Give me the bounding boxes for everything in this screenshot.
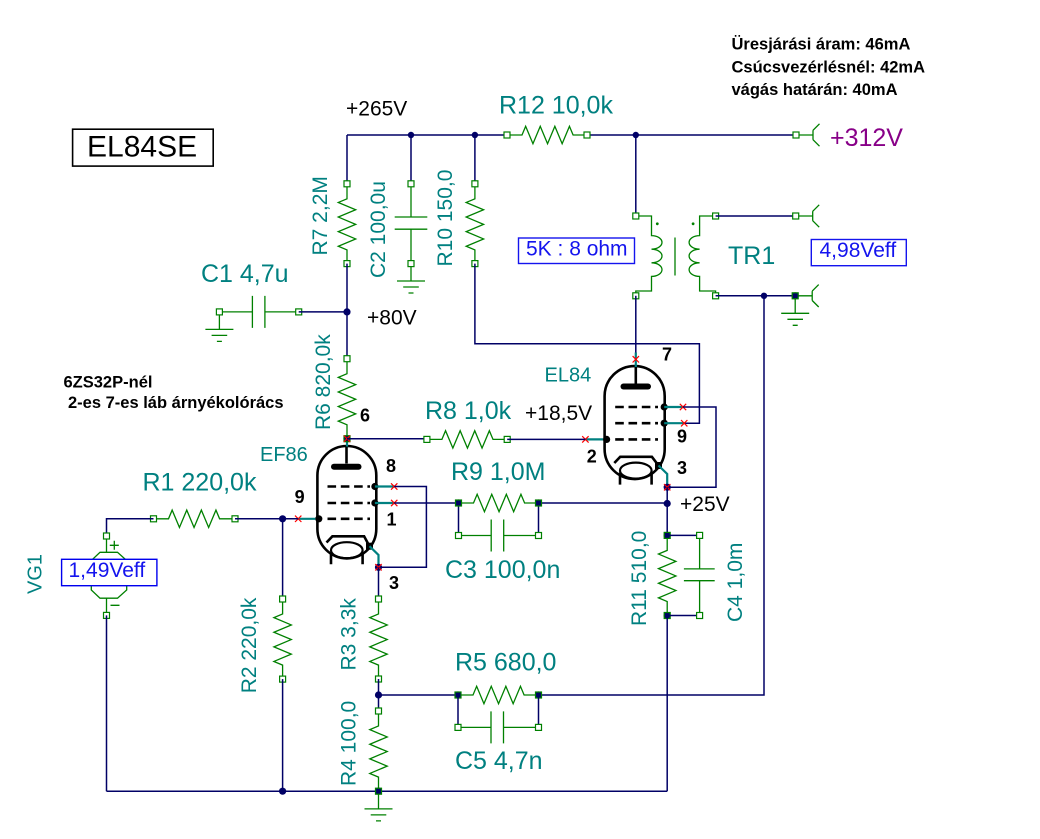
wire R8 to EL84 g1 [507, 438, 585, 440]
wire TR1 secondary bottom to ground terminal [716, 295, 796, 297]
terminal output top [793, 205, 820, 227]
svg-text:C2 100,0u: C2 100,0u [367, 181, 390, 278]
node +80V [343, 308, 350, 315]
svg-text:Csúcsvezérlésnél: 42mA: Csúcsvezérlésnél: 42mA [732, 59, 926, 77]
wire EF86 g3 loop to cathode node [381, 487, 426, 568]
EF86 cathode teal wire [370, 546, 379, 567]
resistor R11 510,0 [628, 531, 676, 626]
capacitor C5 4,7n [455, 711, 543, 775]
svg-text:EF86: EF86 [260, 444, 308, 466]
pin connect x EL84 g1 [582, 436, 588, 442]
EL84 g1 pin wire (teal) [585, 438, 603, 440]
wire R10 bottom to EL84 g2 loop [475, 264, 700, 424]
svg-text:VG1: VG1 [25, 554, 47, 594]
svg-text:3: 3 [389, 573, 399, 593]
svg-text:R11 510,0: R11 510,0 [628, 531, 651, 626]
svg-text:9: 9 [677, 427, 687, 447]
EF86 cathode dome [331, 542, 363, 558]
transformer TR1 phase dot secondary [692, 222, 695, 225]
wire R3/R4 node to R5 [379, 694, 459, 696]
resistor R3 3,3k [338, 596, 388, 682]
wire top supply rail right segment [587, 134, 793, 136]
EL84 anode stem [634, 367, 637, 384]
wire from rail down to R7 top [346, 135, 348, 184]
svg-text:+25V: +25V [680, 493, 730, 516]
wire R5 right down to C5 [538, 695, 540, 727]
wire R5 left down to C5 [457, 695, 459, 727]
wire cathode node to +25V node [666, 487, 668, 503]
transformer TR1 terminal squares [633, 213, 719, 299]
svg-text:R12 10,0k: R12 10,0k [499, 91, 613, 119]
wire from rail down to R10 top [474, 135, 476, 184]
EL84 pin dot g3 [661, 403, 668, 410]
resistor R7 2,2M [309, 176, 356, 266]
wire +25V node down to R11 [666, 504, 668, 536]
wire +80V node down to R6 top [346, 312, 348, 359]
EL84 g2 pin wire (teal) [664, 422, 684, 424]
node dot rail/R10 [472, 132, 478, 138]
svg-text:Üresjárási áram: 46mA: Üresjárási áram: 46mA [732, 35, 911, 54]
svg-text:3: 3 [677, 458, 687, 478]
resistor R5 680,0 [455, 649, 556, 704]
EF86 g1 pin wire (teal) [298, 518, 315, 520]
EL84 cathode dome [620, 463, 652, 479]
node R4 ground [375, 788, 382, 795]
node grid / R2 top [279, 515, 286, 522]
wire EF86 g2 to R9 [394, 502, 458, 504]
tube EL84 envelope [605, 366, 665, 479]
svg-text:R7 2,2M: R7 2,2M [309, 176, 332, 255]
resistor R9 1,0M [451, 458, 545, 512]
svg-text:2: 2 [587, 447, 597, 467]
node R9 left [455, 499, 462, 506]
wire EF86 anode node to R8 [347, 438, 427, 440]
EL84 grid g1 dashed [615, 438, 658, 441]
EL84 cathode legs [620, 473, 652, 485]
EL84 cathode top [614, 457, 658, 466]
EF86 grid g3 dashed [328, 485, 371, 488]
wire R1 to grid node and EF86 g1 [235, 518, 298, 520]
wire R11 bottom to C4 bottom [667, 615, 699, 617]
node R11 top [664, 532, 671, 539]
EL84 grid g3 dashed [615, 406, 658, 409]
wire VG1 bottom to ground rail [106, 615, 108, 791]
node R2/ground rail [279, 788, 286, 795]
ground at output bottom [781, 299, 809, 326]
svg-text:+265V: +265V [346, 97, 407, 120]
transformer TR1 phase dot primary [656, 222, 659, 225]
wire from rail down to TR1 primary top [635, 135, 637, 216]
svg-text:C4 1,0m: C4 1,0m [724, 543, 747, 622]
wire TR1 primary bottom to EL84 anode [635, 296, 637, 353]
svg-text:TR1: TR1 [728, 242, 775, 270]
node dot rail/C2 [408, 132, 414, 138]
EF86 pin dot g1 [315, 515, 322, 522]
svg-text:7: 7 [662, 344, 672, 364]
node R3/R4 junction [375, 691, 382, 698]
svg-text:R1 220,0k: R1 220,0k [143, 469, 257, 497]
wire R7 bottom to +80V node [346, 264, 348, 312]
tube EF86 envelope [317, 446, 376, 558]
box 5K : 8 ohm [519, 238, 635, 264]
svg-text:+18,5V: +18,5V [525, 402, 592, 425]
svg-text:vágás határán: 40mA: vágás határán: 40mA [732, 81, 898, 99]
svg-text:6: 6 [360, 406, 370, 426]
transformer TR1 primary winding [636, 216, 662, 296]
pin connect x EF86 g1 [295, 516, 301, 522]
svg-text:R9 1,0M: R9 1,0M [451, 458, 545, 486]
EF86 grid g1 dashed [328, 517, 371, 520]
resistor R12 10,0k [499, 91, 613, 143]
wire R9 left down to C3 [458, 503, 460, 536]
node R5 left [454, 691, 461, 698]
svg-text:EL84SE: EL84SE [87, 131, 197, 164]
title box EL84SE [73, 129, 214, 166]
resistor R1 220,0k [143, 469, 257, 528]
wire R9 to +25V node [539, 502, 668, 504]
source VG1 [25, 533, 127, 618]
svg-text:R3 3,3k: R3 3,3k [338, 598, 361, 671]
wire R2 bottom to ground rail [282, 679, 284, 791]
transformer TR1 core [674, 238, 676, 276]
pin connect x EF86 g3 [391, 483, 397, 489]
EF86 g3 pin wire (teal) [375, 485, 394, 487]
node x EF86 cathode [375, 564, 382, 571]
terminal output bottom [792, 285, 819, 307]
EL84 anode pin wire (teal) [635, 353, 637, 369]
EF86 anode stem [345, 447, 348, 464]
EF86 cathode top [327, 536, 370, 546]
node dot rail/TR1 [633, 132, 639, 138]
wire R3 bottom to R4 node [378, 679, 380, 711]
ground rail bottom [107, 790, 668, 792]
wire from rail down to C2 top [410, 135, 412, 184]
ground symbol at R4 [365, 794, 393, 821]
svg-text:C5 4,7n: C5 4,7n [455, 747, 543, 775]
box 4,98Veff [811, 239, 906, 266]
wire secondary return down to R5 feedback [539, 296, 765, 695]
wire EF86 cathode node down to R3 [378, 567, 380, 599]
node R9 right [535, 499, 542, 506]
svg-text:R5 680,0: R5 680,0 [455, 649, 556, 677]
pin connect x EL84 g3 [680, 404, 686, 410]
svg-text:EL84: EL84 [545, 365, 592, 387]
resistor R6 820,0k [312, 334, 356, 439]
resistor R10 150,0 [434, 170, 484, 267]
EF86 anode bar [334, 464, 359, 470]
resistor R4 100,0 [338, 701, 388, 791]
EL84 pin dot g1 [603, 436, 610, 443]
node R6 bottom / EF86 anode [343, 435, 350, 442]
resistor R8 1,0k [424, 397, 512, 448]
svg-text:+312V: +312V [830, 124, 903, 152]
svg-text:R10 150,0: R10 150,0 [434, 170, 457, 267]
capacitor C2 100,0u [367, 181, 427, 278]
EL84 anode bar [624, 384, 649, 390]
box 1,49Veff [62, 559, 157, 586]
EL84 cathode pin square [655, 462, 662, 469]
pin connect x EL84 anode [633, 356, 639, 362]
pin connect x EL84 g2 [681, 420, 687, 426]
node x EL84 cathode [664, 484, 671, 491]
svg-text:R8 1,0k: R8 1,0k [425, 397, 512, 425]
wire R9 right down to C3 [538, 503, 540, 536]
EL84 pin dot g2 [661, 420, 668, 427]
wire TR1 secondary top to output terminal [716, 215, 793, 217]
svg-text:1,49Veff: 1,49Veff [69, 559, 146, 582]
capacitor C4 1,0m [684, 532, 747, 622]
wire top supply rail left segment [347, 134, 507, 136]
capacitor C1 4,7u [201, 260, 302, 328]
wire R11 top to C4 top [667, 534, 699, 536]
capacitor C3 100,0n [445, 520, 560, 585]
svg-text:R4 100,0: R4 100,0 [338, 701, 361, 786]
wire VG1 top to R1 [107, 519, 154, 536]
terminal +312V [793, 124, 903, 152]
EF86 g2 pin wire (teal) [375, 502, 394, 504]
svg-text:+80V: +80V [367, 307, 417, 330]
EL84 cathode teal wire [659, 466, 668, 488]
svg-text:R6 820,0k: R6 820,0k [312, 334, 335, 430]
node dot secondary return [761, 293, 767, 299]
EF86 cathode pin square [366, 543, 373, 550]
svg-text:8: 8 [386, 456, 396, 476]
node +25V [664, 500, 671, 507]
EF86 pin dot g2 [371, 499, 378, 506]
EF86 pin dot g3 [371, 483, 378, 490]
ground left of C1 [205, 315, 233, 342]
svg-text:5K : 8 ohm: 5K : 8 ohm [526, 238, 628, 261]
EF86 cathode legs [331, 552, 363, 564]
EF86 grid g2 dashed [328, 502, 371, 505]
resistor R2 220,0k [238, 596, 291, 693]
wire EL84 g3 loop to cathode node [670, 407, 716, 487]
svg-text:6ZS32P-nél: 6ZS32P-nél [64, 374, 153, 392]
node R11 bottom [664, 612, 671, 619]
svg-text:C1 4,7u: C1 4,7u [201, 260, 289, 288]
svg-text:1: 1 [387, 510, 397, 530]
svg-text:C3 100,0n: C3 100,0n [445, 556, 560, 584]
svg-text:4,98Veff: 4,98Veff [820, 239, 897, 262]
wire grid node down to R2 [282, 519, 284, 599]
wire C1 to +80V node [299, 311, 347, 313]
node R5 right [535, 691, 542, 698]
transformer TR1 secondary winding [689, 216, 716, 296]
EL84 grid g2 dashed [615, 422, 658, 425]
EF86 anode pin wire (teal) [346, 441, 348, 448]
ground below C2 [397, 267, 425, 293]
pin connect x EF86 g2 [391, 500, 397, 506]
svg-text:R2 220,0k: R2 220,0k [238, 597, 261, 693]
svg-text:2-es 7-es láb árnyékolórács: 2-es 7-es láb árnyékolórács [68, 394, 284, 412]
svg-text:9: 9 [295, 487, 305, 507]
EL84 g3 pin wire (teal) [664, 406, 683, 408]
wire R11 bottom down to ground rail [666, 616, 668, 792]
